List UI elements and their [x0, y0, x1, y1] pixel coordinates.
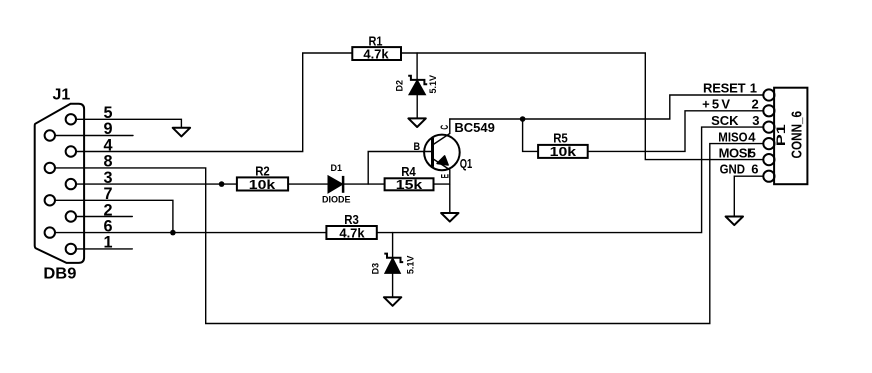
wire pin7 down to pin6 — [55, 200, 173, 232]
wire R5 branch — [523, 119, 539, 151]
svg-text:10k: 10k — [249, 177, 276, 192]
wire base branch — [368, 152, 432, 185]
P1 pin 3 circle — [763, 122, 774, 133]
P1 pin 6 circle — [763, 171, 774, 182]
wire collector to RESET — [450, 95, 764, 119]
wire pin2 stub — [76, 216, 132, 218]
P1 pin 1 circle — [763, 89, 774, 100]
svg-text:GND: GND — [720, 161, 745, 176]
svg-text:5: 5 — [749, 146, 756, 161]
wire pin5 to ground — [76, 119, 181, 128]
wire R2 to D1 — [288, 183, 328, 185]
wire pin4 to R1 — [76, 53, 352, 152]
connector J1 DB9 outline — [35, 104, 84, 263]
J1 pin 6 circle — [45, 227, 55, 237]
wire pin6 to R3 — [55, 232, 326, 234]
wire pin9 stub — [55, 135, 133, 137]
junction dot pin7/pin6 — [170, 230, 176, 236]
zener D2 — [408, 53, 427, 118]
svg-text:1: 1 — [750, 81, 757, 96]
J1 pin 5 circle — [66, 114, 76, 124]
svg-text:5.1V: 5.1V — [428, 75, 438, 94]
svg-text:MISO: MISO — [718, 130, 747, 145]
svg-text:D1: D1 — [331, 163, 343, 173]
svg-text:DB9: DB9 — [43, 266, 76, 283]
connector P1 CONN_6 box — [774, 88, 807, 185]
resistor R3 — [326, 226, 376, 239]
svg-text:4.7k: 4.7k — [339, 226, 365, 241]
svg-text:P1: P1 — [776, 123, 788, 146]
wire R1 to corner MOSI — [401, 53, 763, 160]
svg-text:DIODE: DIODE — [322, 195, 351, 205]
svg-text:+5V: +5V — [702, 97, 732, 112]
wire R5 to +5V pin — [588, 111, 764, 152]
wire pin1 stub — [76, 248, 132, 250]
ground (D2) — [408, 118, 425, 127]
resistor R1 — [352, 47, 401, 60]
svg-text:C: C — [438, 124, 450, 129]
wire R4 to emitter — [434, 183, 450, 185]
svg-text:E: E — [439, 174, 451, 178]
ground (Q1 emitter) — [441, 213, 458, 222]
svg-text:Q1: Q1 — [460, 156, 473, 171]
svg-text:10k: 10k — [550, 144, 577, 159]
wire pin8 to bottom — [55, 144, 763, 324]
junction dot collector/R5 — [520, 116, 526, 122]
P1 pin 5 circle — [763, 154, 774, 165]
ground (DB9 pin 5) — [173, 128, 190, 137]
J1 pin 2 circle — [66, 211, 76, 221]
svg-text:15k: 15k — [396, 177, 423, 192]
svg-text:MOSI: MOSI — [719, 146, 751, 161]
zener D3 — [384, 233, 403, 298]
wire pin3 to R2 — [76, 183, 237, 185]
wire D1 to R4 — [343, 183, 385, 185]
P1 pin 2 circle — [763, 105, 774, 116]
J1 pin 8 circle — [45, 163, 55, 173]
ground (D3) — [384, 297, 401, 306]
svg-text:6: 6 — [751, 161, 758, 176]
junction dot node pin3 — [219, 181, 225, 187]
diode D1 — [328, 176, 343, 193]
svg-text:J1: J1 — [53, 86, 71, 103]
svg-text:CONN_6: CONN_6 — [790, 111, 806, 159]
J1 pin 3 circle — [66, 179, 76, 189]
svg-text:4.7k: 4.7k — [363, 47, 389, 62]
J1 pin 1 circle — [66, 244, 76, 254]
P1 pin 4 circle — [763, 138, 774, 149]
resistor R5 — [538, 145, 588, 158]
resistor R4 — [385, 178, 434, 190]
svg-text:2: 2 — [752, 97, 759, 112]
svg-text:D2: D2 — [395, 80, 405, 92]
resistor R2 — [237, 177, 288, 190]
svg-text:SCK: SCK — [711, 113, 739, 128]
svg-text:B: B — [414, 141, 421, 153]
wire R3 to SCK — [377, 127, 764, 233]
J1 pin 9 circle — [45, 130, 55, 140]
svg-text:3: 3 — [752, 113, 759, 128]
transistor Q1 — [424, 119, 460, 213]
svg-text:D3: D3 — [370, 263, 380, 275]
svg-text:RESET: RESET — [703, 81, 746, 96]
ground (CONN pin 6) — [726, 217, 743, 226]
svg-text:5.1V: 5.1V — [406, 256, 416, 275]
J1 pin 4 circle — [66, 146, 76, 156]
wire GND pin to ground — [734, 176, 763, 216]
svg-text:BC549: BC549 — [454, 120, 494, 135]
svg-text:4: 4 — [748, 130, 756, 145]
J1 pin 7 circle — [45, 195, 55, 205]
